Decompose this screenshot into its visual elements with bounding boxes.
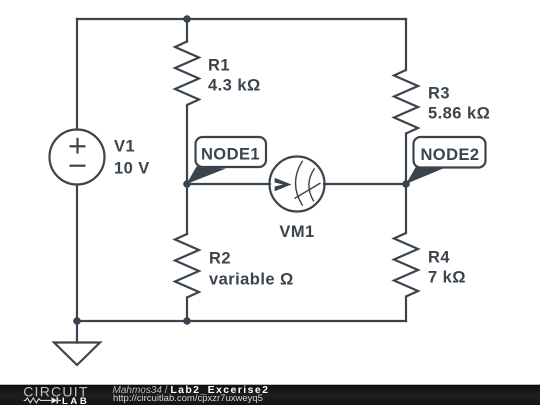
wire R3 top lead (405, 19, 407, 70)
svg-text:variable Ω: variable Ω (209, 271, 294, 289)
wire V1 top lead (76, 19, 78, 130)
svg-text:10 V: 10 V (114, 160, 150, 178)
wire R4 top lead (405, 184, 407, 233)
junction dot top (183, 15, 191, 23)
resistor R4 (394, 233, 418, 297)
svg-text:NODE2: NODE2 (420, 146, 479, 164)
wire R2 bottom lead (186, 298, 188, 322)
wire R2 top lead (186, 184, 188, 234)
wire V1 bottom lead (76, 185, 78, 322)
resistor R2 (175, 234, 199, 298)
junction dot NODE2 (402, 180, 410, 188)
wire R3 bottom lead to NODE2 (405, 134, 407, 185)
svg-text:R1: R1 (208, 57, 230, 75)
svg-text:http://circuitlab.com/cpxzr7ux: http://circuitlab.com/cpxzr7uxweyq5 (113, 393, 263, 404)
voltmeter VM1 (270, 157, 325, 212)
svg-text:R2: R2 (209, 250, 231, 268)
junction dot bottom middle (183, 317, 191, 325)
svg-text:NODE1: NODE1 (201, 146, 260, 164)
wire top horizontal (77, 18, 406, 20)
svg-text:R3: R3 (428, 85, 450, 103)
wire R1 bottom lead to NODE1 (186, 105, 188, 184)
wire NODE1 to VM1 (187, 183, 270, 185)
junction dot bottom left (73, 317, 81, 325)
node NODE1 flag (187, 137, 267, 184)
svg-text:7 kΩ: 7 kΩ (428, 269, 466, 287)
wire bottom horizontal (77, 320, 406, 322)
wire R4 bottom lead (405, 297, 407, 322)
svg-text:5.86 kΩ: 5.86 kΩ (428, 105, 490, 123)
junction dot NODE1 (183, 180, 191, 188)
svg-text:V1: V1 (114, 138, 135, 156)
voltage source V1 (50, 130, 105, 185)
svg-text:VM1: VM1 (279, 223, 314, 241)
svg-text:R4: R4 (428, 249, 450, 267)
wire R1 top lead (186, 19, 188, 42)
node NODE2 flag (406, 137, 486, 184)
resistor R1 (175, 42, 199, 106)
resistor R3 (394, 70, 418, 134)
wire ground lead (76, 321, 78, 343)
ground (54, 343, 100, 366)
CircuitLab logo diode (52, 397, 62, 403)
wire VM1 to NODE2 (324, 183, 406, 185)
CircuitLab logo squiggle resistor (24, 398, 52, 403)
svg-text:4.3 kΩ: 4.3 kΩ (208, 77, 261, 95)
svg-text:LAB: LAB (62, 396, 89, 405)
